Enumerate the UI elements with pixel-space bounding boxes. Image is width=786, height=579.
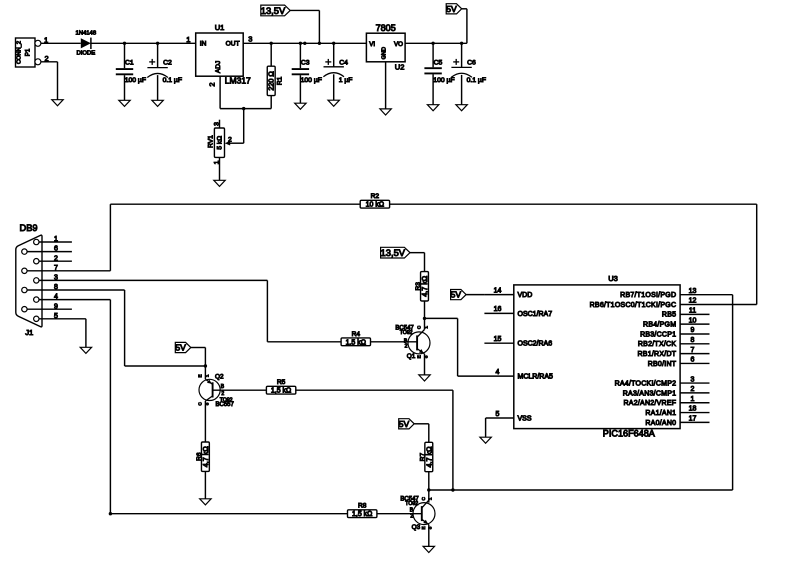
svg-text:RB1/RX/DT: RB1/RX/DT xyxy=(637,351,676,358)
svg-text:1N4148: 1N4148 xyxy=(75,30,96,36)
svg-text:P1: P1 xyxy=(25,48,32,56)
svg-text:100 µF: 100 µF xyxy=(125,77,146,84)
svg-text:2: 2 xyxy=(208,82,217,86)
svg-text:17: 17 xyxy=(689,416,697,423)
svg-text:1,5 kΩ: 1,5 kΩ xyxy=(352,511,372,518)
svg-text:13,5V: 13,5V xyxy=(381,247,406,258)
svg-text:5V: 5V xyxy=(451,290,462,300)
svg-text:5V: 5V xyxy=(446,4,457,14)
svg-text:2: 2 xyxy=(221,391,224,397)
svg-text:MCLR/RA5: MCLR/RA5 xyxy=(518,374,554,381)
svg-text:7: 7 xyxy=(691,347,695,354)
svg-text:J1: J1 xyxy=(25,328,33,337)
svg-text:C3: C3 xyxy=(301,60,310,67)
svg-text:10: 10 xyxy=(689,317,697,324)
svg-text:R6: R6 xyxy=(196,452,203,461)
svg-text:18: 18 xyxy=(689,406,697,413)
svg-text:15: 15 xyxy=(494,336,502,343)
svg-text:OSC2/RA6: OSC2/RA6 xyxy=(518,341,553,348)
svg-text:RB3/CCP1: RB3/CCP1 xyxy=(640,331,676,338)
svg-text:C4: C4 xyxy=(339,60,348,67)
svg-text:E: E xyxy=(421,526,426,529)
svg-text:GND: GND xyxy=(382,47,388,59)
svg-text:VDD: VDD xyxy=(518,292,533,299)
svg-text:DB9: DB9 xyxy=(20,223,38,233)
svg-text:CONN_2: CONN_2 xyxy=(17,41,23,64)
svg-text:OUT: OUT xyxy=(226,41,240,48)
svg-text:2: 2 xyxy=(691,386,695,393)
svg-text:12: 12 xyxy=(689,298,697,305)
svg-text:13,5V: 13,5V xyxy=(261,5,286,16)
svg-text:C2: C2 xyxy=(163,60,172,67)
svg-text:1: 1 xyxy=(204,374,209,377)
svg-text:RB5: RB5 xyxy=(662,312,676,319)
svg-text:VSS: VSS xyxy=(518,415,532,422)
svg-text:5: 5 xyxy=(496,411,500,418)
svg-text:RB2/TX/CK: RB2/TX/CK xyxy=(638,341,677,348)
svg-text:C6: C6 xyxy=(467,60,476,67)
svg-text:VO: VO xyxy=(394,41,403,48)
svg-text:C1: C1 xyxy=(125,60,134,67)
svg-text:TO92: TO92 xyxy=(400,330,413,336)
svg-text:RB6/T1OSC0/T1CKI/PGC: RB6/T1OSC0/T1CKI/PGC xyxy=(590,302,677,309)
svg-text:VI: VI xyxy=(369,41,375,48)
svg-text:OSC1/RA7: OSC1/RA7 xyxy=(518,311,553,318)
svg-text:6: 6 xyxy=(691,357,695,364)
svg-text:3: 3 xyxy=(214,122,221,126)
svg-text:C5: C5 xyxy=(434,60,443,67)
svg-text:Q3: Q3 xyxy=(412,524,421,531)
svg-text:R3: R3 xyxy=(415,282,422,291)
svg-text:10 kΩ: 10 kΩ xyxy=(366,202,384,209)
svg-text:13: 13 xyxy=(689,288,697,295)
svg-text:R7: R7 xyxy=(419,452,426,461)
svg-text:E: E xyxy=(416,355,421,358)
svg-text:5V: 5V xyxy=(399,419,410,429)
svg-text:1 µF: 1 µF xyxy=(339,77,353,84)
svg-text:5V: 5V xyxy=(175,343,186,353)
svg-text:16: 16 xyxy=(494,306,502,313)
svg-text:8: 8 xyxy=(691,337,695,344)
svg-text:14: 14 xyxy=(494,287,502,294)
svg-text:1: 1 xyxy=(186,35,190,44)
svg-text:ADJ: ADJ xyxy=(215,61,222,73)
svg-text:R4: R4 xyxy=(352,331,361,338)
svg-text:3: 3 xyxy=(248,35,252,44)
svg-text:R2: R2 xyxy=(371,193,380,200)
svg-text:1: 1 xyxy=(214,160,221,164)
svg-text:5 kΩ: 5 kΩ xyxy=(217,136,224,150)
svg-text:2: 2 xyxy=(228,136,232,143)
svg-text:7805: 7805 xyxy=(376,23,396,33)
svg-text:1,5 kΩ: 1,5 kΩ xyxy=(271,388,291,395)
svg-text:IN: IN xyxy=(200,41,207,48)
svg-text:RA2/AN2/VREF: RA2/AN2/VREF xyxy=(624,400,677,407)
svg-text:1,5 kΩ: 1,5 kΩ xyxy=(346,339,366,346)
svg-text:RA4/TOCKI/CMP2: RA4/TOCKI/CMP2 xyxy=(615,380,677,387)
svg-text:11: 11 xyxy=(689,308,696,315)
svg-text:RA3/AN3/CMP1: RA3/AN3/CMP1 xyxy=(623,390,677,397)
svg-text:9: 9 xyxy=(691,327,695,334)
svg-text:U1: U1 xyxy=(215,23,225,32)
svg-text:0.1 µF: 0.1 µF xyxy=(163,77,182,84)
svg-text:100 µF: 100 µF xyxy=(301,77,322,84)
svg-text:LM317: LM317 xyxy=(225,76,251,86)
svg-text:100 µF: 100 µF xyxy=(433,77,454,84)
svg-text:Q2: Q2 xyxy=(215,373,224,380)
svg-text:2: 2 xyxy=(410,514,413,520)
svg-text:PIC16F648A: PIC16F648A xyxy=(603,429,656,439)
svg-text:RB4/PGM: RB4/PGM xyxy=(643,322,676,329)
svg-text:3: 3 xyxy=(691,376,695,383)
svg-text:U2: U2 xyxy=(395,62,405,71)
svg-text:RA1/AN1: RA1/AN1 xyxy=(645,410,676,417)
svg-text:R8: R8 xyxy=(358,503,367,510)
svg-text:220 Ω: 220 Ω xyxy=(267,71,276,91)
svg-text:E: E xyxy=(198,374,203,377)
svg-text:RB0/INT: RB0/INT xyxy=(648,361,677,368)
svg-text:R5: R5 xyxy=(277,379,286,386)
svg-text:U3: U3 xyxy=(608,274,618,283)
svg-text:RB7/T1OSI/PGD: RB7/T1OSI/PGD xyxy=(620,292,676,299)
svg-text:DIODE: DIODE xyxy=(76,50,95,56)
svg-text:RV1: RV1 xyxy=(207,135,214,148)
svg-text:4: 4 xyxy=(496,369,500,376)
svg-text:RA0/AN0: RA0/AN0 xyxy=(645,420,676,427)
svg-text:1: 1 xyxy=(691,396,695,403)
svg-text:0.1 µF: 0.1 µF xyxy=(467,77,486,84)
svg-text:BC557: BC557 xyxy=(216,402,235,408)
svg-text:TO92: TO92 xyxy=(405,501,418,507)
svg-text:2: 2 xyxy=(405,343,408,349)
svg-text:Q1: Q1 xyxy=(407,353,416,360)
svg-text:R1: R1 xyxy=(276,76,283,85)
